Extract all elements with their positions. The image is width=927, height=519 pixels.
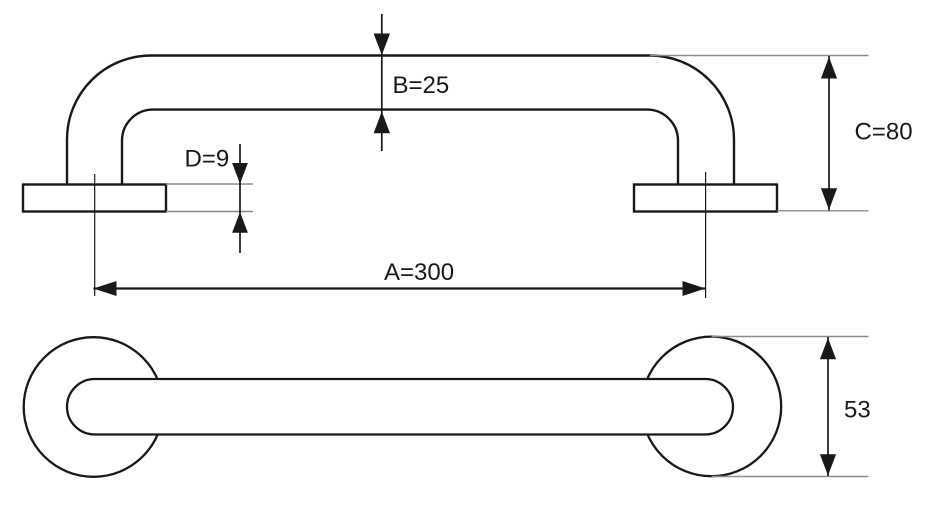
dimension B=25 leader line [381,14,383,151]
D=9 upper extension line [166,183,253,185]
C=80 lower extension line [777,210,869,212]
right flange centerline [705,172,707,298]
dimension D=9 upper arrowhead [232,163,248,184]
svg-text:53: 53 [844,397,871,424]
53 upper extension line [712,336,869,338]
left mounting flange (side view) [23,185,166,212]
dimension C=80 lower arrowhead [821,188,837,210]
svg-text:A=300: A=300 [384,259,454,286]
svg-text:D=9: D=9 [185,146,230,173]
dimension C=80 leader line [828,56,830,211]
right flange disc (top view) [642,337,782,477]
dimension B=25 upper arrowhead [374,34,390,56]
left flange centerline [94,174,96,296]
svg-text:C=80: C=80 [855,119,913,146]
dimension D=9 lower arrowhead [232,212,248,233]
handrail tube inner outline (side view) [122,110,678,185]
left flange disc (top view) [24,337,164,477]
dimension B=25 lower arrowhead [374,112,390,134]
right mounting flange (side view) [634,185,777,212]
dimension C=80 upper arrowhead [821,57,837,79]
dimension 53 leader line [827,337,829,476]
grab bar body (top view) [67,379,733,435]
dimension 53 lower arrowhead [820,454,836,475]
D=9 lower extension line [166,211,253,213]
53 lower extension line [712,476,869,478]
svg-text:B=25: B=25 [393,72,450,99]
handrail tube outer outline (side view) [67,56,734,186]
dimension D=9 leader line [239,144,241,253]
dimension 53 upper arrowhead [820,338,836,359]
dimension A=300 line [94,287,706,289]
dimension A=300 left arrowhead [94,281,117,296]
dimension A=300 right arrowhead [683,281,706,296]
C=80 upper extension line [650,55,869,57]
